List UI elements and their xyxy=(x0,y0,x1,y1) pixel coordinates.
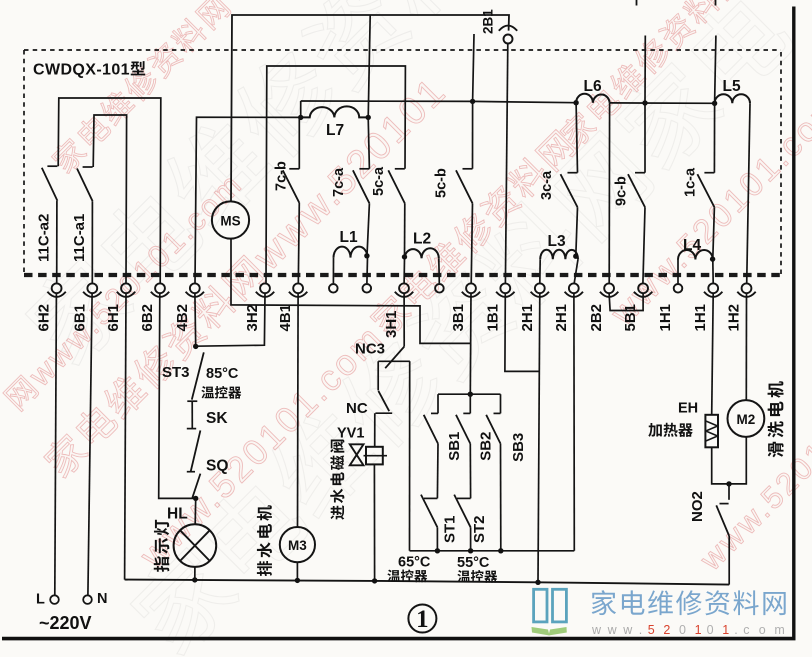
switch 7c-a xyxy=(331,117,369,255)
svg-text:11C-a1: 11C-a1 xyxy=(71,214,88,262)
wire riser 1c-a above rail xyxy=(715,36,716,104)
wire rail y103 right xyxy=(610,102,715,104)
svg-text:SB3: SB3 xyxy=(510,433,527,462)
terminal 1H2 xyxy=(726,283,756,331)
terminal L xyxy=(36,592,59,608)
thermostat switch ST1 65C xyxy=(421,495,459,551)
svg-text:SB2: SB2 xyxy=(478,432,495,461)
svg-text:1H1: 1H1 xyxy=(657,304,674,332)
svg-text:L4: L4 xyxy=(683,237,701,254)
terminal 4B2 xyxy=(174,283,204,331)
svg-text:4B2: 4B2 xyxy=(174,304,191,332)
switch 3c-a xyxy=(539,103,577,257)
node YV1 bottom xyxy=(372,578,377,583)
svg-text:6H2: 6H2 xyxy=(36,304,53,332)
svg-text:L3: L3 xyxy=(548,233,566,250)
node rail 9c-b xyxy=(642,100,647,105)
svg-text:3c-a: 3c-a xyxy=(539,170,555,200)
wire MS bottom to corner 420 xyxy=(231,239,471,344)
svg-text:9c-b: 9c-b xyxy=(614,176,630,206)
terminal 5B1 xyxy=(622,283,652,331)
terminal 2H1 b xyxy=(553,283,583,331)
switch NC xyxy=(346,391,392,417)
svg-text:6H1: 6H1 xyxy=(105,304,122,332)
terminal 2B1 xyxy=(481,9,518,44)
svg-text:N: N xyxy=(97,591,107,607)
svg-text:1: 1 xyxy=(722,623,729,637)
svg-text:SB1: SB1 xyxy=(446,432,463,461)
svg-text:0: 0 xyxy=(707,623,714,637)
terminal N xyxy=(83,591,107,607)
svg-text:w: w xyxy=(622,623,633,637)
svg-text:1: 1 xyxy=(695,623,702,637)
switch 11C-a1 xyxy=(71,167,93,283)
wire stub top edge a xyxy=(636,0,638,6)
wire jumper 2B2-5B1 xyxy=(609,293,643,310)
svg-text:c: c xyxy=(743,623,749,637)
svg-text:5: 5 xyxy=(648,623,655,637)
wire 3H2 link xyxy=(196,293,265,346)
thermostat switch ST2 55C xyxy=(454,495,488,551)
svg-text:w: w xyxy=(591,623,602,637)
switch SB2 xyxy=(456,394,495,498)
logo book icon xyxy=(532,589,567,635)
node L7 right xyxy=(366,115,371,120)
wire SB bracket xyxy=(438,393,501,395)
heater EH resistor xyxy=(648,401,718,448)
svg-text:1: 1 xyxy=(416,606,429,633)
wire thermostat bus xyxy=(410,550,575,552)
wire box 6B2 to switch 11C-a2 xyxy=(58,98,161,283)
node HL top xyxy=(193,496,198,501)
switch 7c-b xyxy=(274,117,300,283)
terminal 6H2 xyxy=(36,283,66,331)
inductor L2 xyxy=(404,231,439,284)
svg-text:M2: M2 xyxy=(737,412,756,427)
label 55C thermostat xyxy=(457,555,497,583)
terminal L1 left xyxy=(329,284,338,293)
terminal 3H2 xyxy=(244,283,274,331)
inductor L7 xyxy=(301,106,369,139)
wire 4B2 riser to L7 xyxy=(195,117,301,283)
dashed enclosure box CWDQX-101 xyxy=(24,50,781,275)
terminal L1 right xyxy=(363,284,372,293)
node 2H1 bottom xyxy=(535,580,540,585)
terminal 3B1 xyxy=(450,283,480,331)
terminal 2H1 a xyxy=(519,283,549,331)
terminal 6H1 xyxy=(105,283,135,331)
svg-text:L5: L5 xyxy=(723,78,741,95)
node M3 bottom xyxy=(295,578,300,583)
wire box 6H1 to switch 11C-a1 xyxy=(93,115,126,283)
svg-text:L2: L2 xyxy=(413,231,431,248)
wire rail y101 xyxy=(301,101,576,103)
svg-text:~220V: ~220V xyxy=(39,613,92,633)
svg-text:1H2: 1H2 xyxy=(726,304,743,332)
motor M3 drain pump xyxy=(257,505,315,580)
terminal 6B1 xyxy=(71,283,101,331)
switch 9c-b xyxy=(614,103,646,283)
lamp HL indicator xyxy=(154,498,216,579)
logo text 家电维修资料网 xyxy=(592,590,786,615)
wire L6 right to terminal 2B2 xyxy=(608,103,610,284)
wire NC to YV1 xyxy=(374,413,376,447)
inductor L5 xyxy=(715,78,750,103)
svg-text:2B1: 2B1 xyxy=(481,9,496,34)
wire stub 5c-b top xyxy=(473,34,474,101)
switch SK xyxy=(187,410,229,472)
svg-text:5B1: 5B1 xyxy=(622,304,639,332)
node rail 5c-b xyxy=(470,99,475,104)
thermostat switch ST3 85C xyxy=(162,352,241,401)
wire frame leg to 7c-a xyxy=(368,15,370,117)
node L7 left xyxy=(298,115,303,120)
svg-text:1c-a: 1c-a xyxy=(682,167,698,197)
switch NC3 xyxy=(355,341,410,369)
wire ST3 to SK xyxy=(191,401,193,428)
wire 1H2 to M2 xyxy=(745,293,747,400)
label 65C thermostat xyxy=(387,555,431,583)
node NO2 top xyxy=(726,481,731,486)
wire 2H1b to ST bus corner xyxy=(573,293,575,550)
svg-text:L1: L1 xyxy=(340,229,358,246)
svg-text:o: o xyxy=(759,623,766,637)
terminal 6B2 xyxy=(139,283,169,331)
wire 6B2 jog to HL node xyxy=(159,293,196,498)
svg-text:NC3: NC3 xyxy=(355,341,385,358)
svg-text:L: L xyxy=(36,592,45,608)
node rail L6 left xyxy=(573,100,578,105)
svg-text:CWDQX-101: CWDQX-101 xyxy=(33,62,130,79)
svg-text:1H1: 1H1 xyxy=(692,304,709,332)
svg-text:HL: HL xyxy=(167,506,188,523)
wire stub top edge b xyxy=(715,0,717,6)
svg-text:5c-a: 5c-a xyxy=(371,166,387,196)
svg-text:L7: L7 xyxy=(326,122,344,139)
logo url www.520101.com xyxy=(591,623,785,637)
terminal 1H1 b xyxy=(692,283,722,331)
wire 4B1 to M3 xyxy=(297,293,300,527)
wire YV1 to bottom bus xyxy=(373,464,375,581)
terminal 4B1 xyxy=(277,283,307,331)
svg-text:MS: MS xyxy=(220,214,240,229)
svg-text:EH: EH xyxy=(678,401,698,417)
inductor L3 xyxy=(540,233,578,283)
wire 1H1b to heater EH xyxy=(712,293,714,414)
switch 1c-a xyxy=(682,103,714,258)
svg-text:85°C: 85°C xyxy=(206,366,239,382)
switch SB1 xyxy=(424,394,463,498)
label CWDQX-101型 xyxy=(33,61,145,78)
motor MS xyxy=(212,201,249,238)
svg-text:65°C: 65°C xyxy=(398,555,431,571)
wire 4B2 to ST3 node xyxy=(194,293,197,346)
terminal 1B1 xyxy=(484,283,514,331)
node L4 right xyxy=(710,256,715,261)
node L1 right xyxy=(364,253,369,258)
svg-text:.: . xyxy=(734,623,737,637)
wire jog L7 to rail xyxy=(300,101,302,117)
svg-text:.: . xyxy=(639,623,642,637)
inductor L1 xyxy=(333,229,367,283)
wire 1B1 jog xyxy=(505,293,539,371)
terminal 3H1 xyxy=(383,283,413,338)
node ST3 top xyxy=(193,344,198,349)
wire 6B1 to N xyxy=(88,293,92,595)
switch NO2 xyxy=(689,484,729,585)
wire 3H1 to NC3 xyxy=(403,293,405,346)
svg-text:M3: M3 xyxy=(288,538,307,553)
switch 5c-a xyxy=(371,166,405,257)
wire EH to NO2 node xyxy=(712,437,747,484)
wire 3B1 to SB node xyxy=(469,293,472,394)
svg-text:6B1: 6B1 xyxy=(71,304,88,332)
svg-text:7c-a: 7c-a xyxy=(331,167,347,197)
solenoid valve YV1 inlet xyxy=(330,426,387,520)
wire 2B1 to terminal 1B1 xyxy=(505,44,507,284)
svg-text:NO2: NO2 xyxy=(689,491,706,522)
node ST1 bottom xyxy=(435,548,440,553)
svg-text:w: w xyxy=(607,623,618,637)
svg-text:L6: L6 xyxy=(584,78,602,95)
inductor L4 xyxy=(678,237,713,283)
svg-text:5c-b: 5c-b xyxy=(434,168,450,198)
terminal 1H1 a xyxy=(657,284,682,332)
svg-text:3H2: 3H2 xyxy=(244,304,261,332)
page number 1 xyxy=(408,605,436,634)
switch SQ xyxy=(187,458,229,498)
svg-text:0: 0 xyxy=(679,623,686,637)
svg-text:55°C: 55°C xyxy=(457,555,490,571)
node L3 right xyxy=(573,254,578,259)
wire frame to 3H2 and 5c-a xyxy=(266,66,405,283)
svg-text:NC: NC xyxy=(346,400,368,417)
svg-text:ST3: ST3 xyxy=(162,364,190,381)
svg-text:2H1: 2H1 xyxy=(519,304,536,332)
svg-text:4B1: 4B1 xyxy=(277,304,294,332)
svg-text:2: 2 xyxy=(663,623,670,637)
wire bottom bus xyxy=(125,580,730,585)
svg-text:1B1: 1B1 xyxy=(484,304,501,332)
svg-text:SK: SK xyxy=(206,410,228,427)
wire NC3 to NC xyxy=(377,361,379,390)
node ST2 bottom xyxy=(468,548,473,553)
svg-text:m: m xyxy=(774,623,784,637)
switch 5c-b xyxy=(434,101,473,283)
svg-text:6B2: 6B2 xyxy=(139,304,156,332)
wire 6H1 to bottom bus xyxy=(125,293,126,579)
svg-text:YV1: YV1 xyxy=(337,426,364,442)
svg-text:3B1: 3B1 xyxy=(450,304,467,332)
node SB feed xyxy=(468,392,473,397)
inductor L6 xyxy=(576,78,610,103)
svg-text:SQ: SQ xyxy=(206,458,228,475)
node L2 left xyxy=(402,254,407,259)
svg-text:2B2: 2B2 xyxy=(588,304,605,332)
svg-text:3H1: 3H1 xyxy=(383,310,400,338)
node rail L5 left xyxy=(712,101,717,106)
svg-text:ST2: ST2 xyxy=(471,515,488,543)
node HL bottom xyxy=(192,577,197,582)
svg-text:7c-b: 7c-b xyxy=(274,161,290,191)
node SB3 bottom xyxy=(498,548,503,553)
svg-text:ST1: ST1 xyxy=(442,515,459,543)
wire 2H1 to bottom bus xyxy=(538,293,540,582)
wire 6H2 to L xyxy=(55,293,57,595)
svg-text:11C-a2: 11C-a2 xyxy=(36,214,53,262)
wire top frame to MS and 2B1 xyxy=(231,15,509,202)
switch SB3 xyxy=(486,394,527,551)
wire L5 right to terminal 1H2 xyxy=(747,103,750,283)
terminal 2B2 xyxy=(588,283,618,331)
motor M2 wash xyxy=(728,381,784,457)
wire NC3 to thermostat bus xyxy=(409,361,411,551)
wire riser 9c-b above rail xyxy=(644,36,646,104)
terminal L2 right xyxy=(435,284,444,293)
svg-text:2H1: 2H1 xyxy=(553,304,570,332)
switch 11C-a2 xyxy=(36,166,58,283)
